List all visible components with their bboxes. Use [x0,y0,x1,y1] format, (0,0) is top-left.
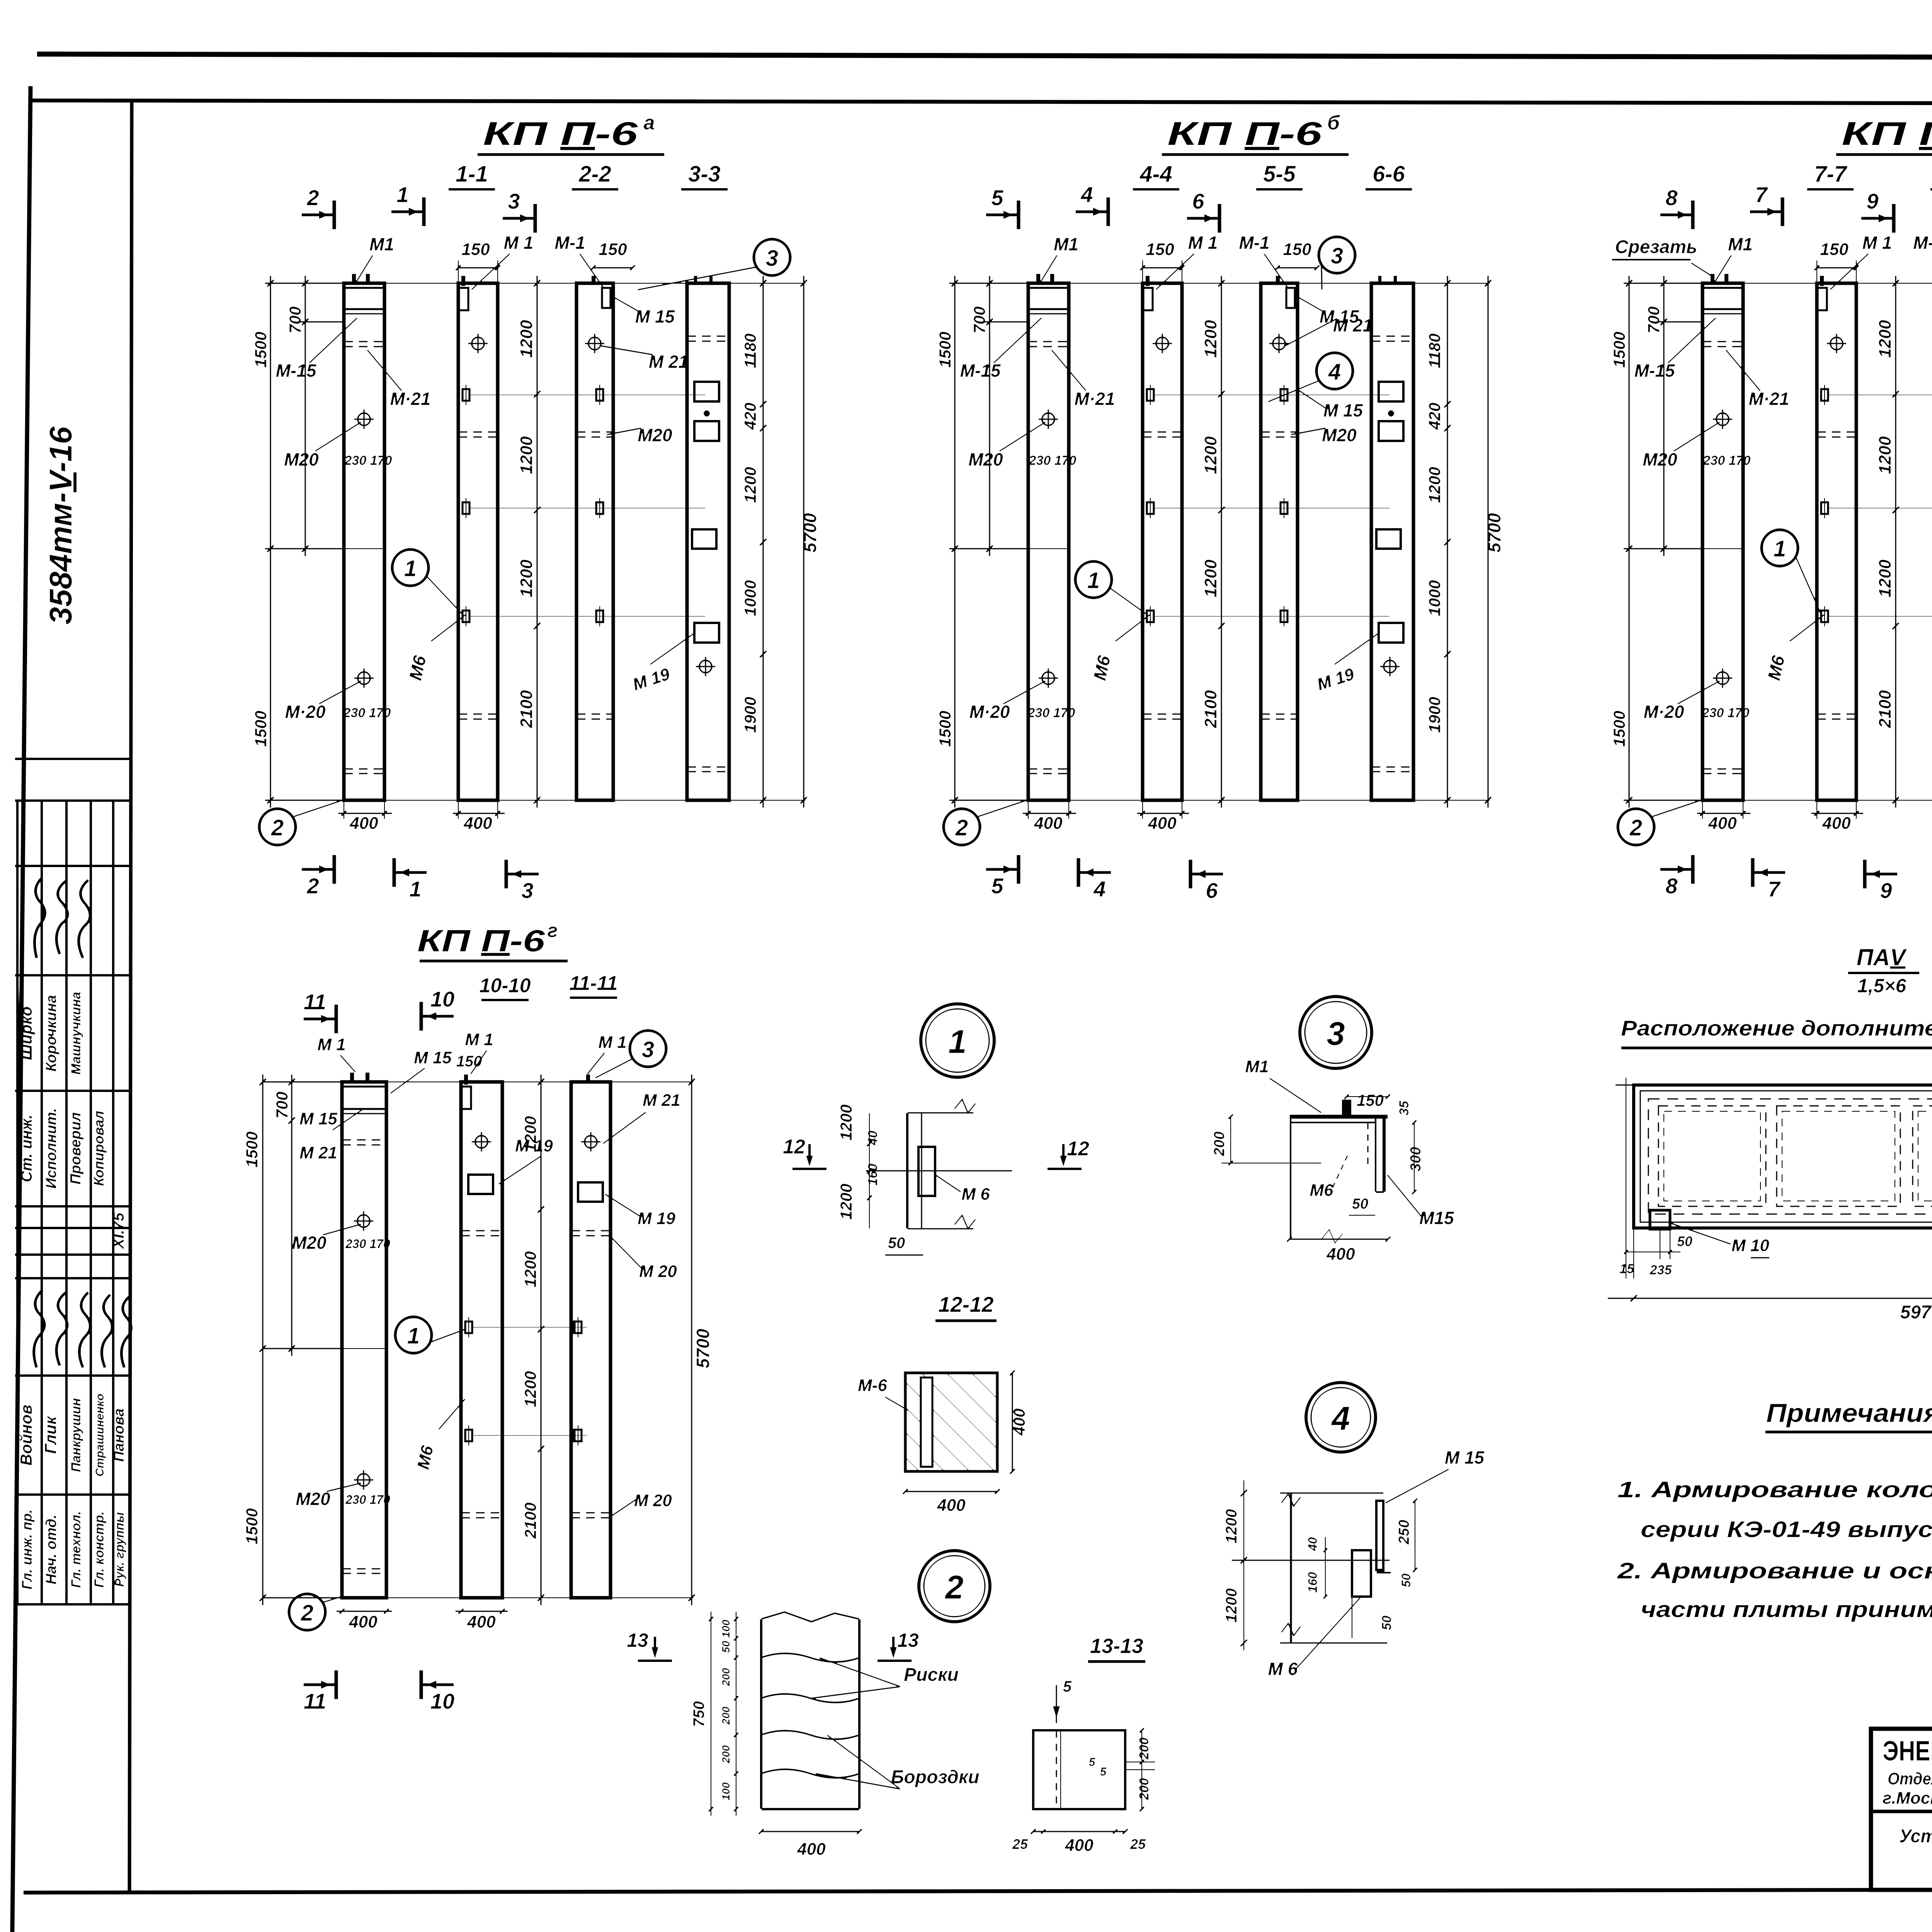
svg-text:1180: 1180 [1425,333,1444,368]
svg-text:1200: 1200 [517,320,536,358]
svg-text:50: 50 [1677,1233,1692,1249]
svg-text:М20: М20 [638,425,672,445]
section cut marks top КП <tspan text-decoration="underline">П</tspan>-6 [986,213,1019,217]
column КП <tspan text-decoration="underline">П</tspan>-6 view 3 [577,283,613,800]
column КП <tspan text-decoration="underline">П</tspan>-6 view 4 [687,283,729,800]
svg-text:1: 1 [1087,568,1100,593]
svg-text:М1: М1 [1728,234,1753,254]
svg-text:200: 200 [1137,1738,1151,1760]
svg-text:7: 7 [1755,182,1768,207]
detail 4 circle [1306,1383,1376,1452]
svg-text:2: 2 [944,1569,963,1606]
column КП <tspan text-decoration="underline">П</tspan>-6 view 2 [458,283,498,800]
plate plan outer [1634,1085,1932,1228]
svg-text:1500: 1500 [243,1131,261,1167]
svg-text:1: 1 [948,1024,966,1060]
section 13-13 drawing [1033,1730,1125,1809]
dimension chain middle КП <tspan text-decoration="underline">П</tspan>-6 [1221,276,1223,808]
svg-text:1200: 1200 [1876,560,1895,597]
detail circle 1 ref КП <tspan text-decoration="underline">П</tspan>-6 [1762,530,1798,566]
svg-text:7: 7 [1768,877,1781,901]
svg-text:М20: М20 [296,1489,330,1509]
svg-text:235: 235 [1650,1263,1672,1277]
detail 2 circle [919,1551,990,1622]
svg-text:35: 35 [1397,1100,1412,1116]
dimension chain middle КП <tspan text-decoration="underline">П</tspan>-6 [1895,276,1897,808]
svg-text:М·21: М·21 [390,389,431,409]
svg-text:Отделение. Дальних Передач: Отделение. Дальних Передач [1888,1769,1932,1788]
svg-text:КП П-6: КП П-6 [417,923,545,958]
svg-text:Исполнит.: Исполнит. [43,1108,60,1189]
detail circle 2 ref КП <tspan text-decoration="underline">П</tspan>-6 [944,809,980,845]
svg-text:160: 160 [1306,1572,1320,1593]
svg-text:М20: М20 [968,449,1003,469]
outer border left line [12,86,31,1932]
svg-text:М20: М20 [292,1233,327,1253]
svg-text:2: 2 [301,1600,313,1626]
svg-text:1500: 1500 [1610,711,1628,747]
svg-text:9: 9 [1880,878,1892,903]
svg-text:10: 10 [430,987,454,1011]
svg-text:М 20: М 20 [639,1262,677,1281]
svg-text:1200: 1200 [1223,1509,1240,1544]
svg-text:М 1: М 1 [465,1030,493,1049]
svg-text:400: 400 [797,1840,826,1859]
level extension lines КП <tspan text-decoration="underline">П</tspan>-6 [469,395,706,396]
svg-text:10-10: 10-10 [480,975,531,997]
svg-text:серии КЭ-01-49 выпуск П.: серии КЭ-01-49 выпуск П. [1641,1517,1932,1542]
svg-text:1200: 1200 [837,1104,855,1140]
plate dimensions [1615,1084,1634,1086]
inner frame top line [29,97,1932,104]
svg-text:25: 25 [1012,1836,1028,1852]
svg-text:3-3: 3-3 [688,162,721,187]
svg-text:1200: 1200 [521,1116,539,1152]
bottom dimensions КП <tspan text-decoration="underline">П</tspan>-6 [338,813,392,815]
svg-text:М 19: М 19 [638,1209,675,1228]
svg-text:5: 5 [1089,1756,1096,1769]
svg-text:230 170: 230 170 [345,1493,390,1507]
dimension chain middle КП II-6г [540,1074,542,1605]
svg-text:1: 1 [404,556,417,581]
svg-text:1200: 1200 [1876,436,1895,474]
level extension lines КП <tspan text-decoration="underline">П</tspan>-6 [1828,395,1932,396]
svg-text:М-1: М-1 [1913,233,1932,253]
section cut marks bottom КП <tspan text-decoration="underline">П</tspan>-6 [301,868,334,871]
svg-text:ЭНЕРГОСЕТЬПРОЕКТ: ЭНЕРГОСЕТЬПРОЕКТ [1883,1736,1932,1767]
svg-text:XI.75: XI.75 [110,1213,127,1250]
svg-text:6: 6 [1192,189,1204,213]
svg-text:230 170: 230 170 [345,1237,390,1251]
detail 1 circle [921,1004,994,1077]
svg-text:1900: 1900 [1425,697,1444,733]
svg-text:400: 400 [463,814,492,833]
plate corner embed left М10 [1650,1210,1670,1229]
svg-text:2: 2 [1629,815,1642,840]
section cut marks top КП II-6г [303,1017,336,1021]
svg-text:Гл. технол.: Гл. технол. [69,1511,83,1588]
svg-text:4-4: 4-4 [1139,162,1172,187]
svg-text:М20: М20 [1643,449,1677,469]
bottom dimensions КП <tspan text-decoration="underline">П</tspan>-6 [1697,813,1751,815]
svg-text:М20: М20 [1322,425,1357,445]
detail circle 3 ref КП II-6г [630,1031,666,1067]
svg-text:50: 50 [888,1235,905,1252]
dimension chain right КП <tspan text-decoration="underline">П</tspan>-6 [1447,276,1449,808]
svg-text:1200: 1200 [517,436,536,474]
svg-text:1200: 1200 [517,560,536,597]
svg-text:М·20: М·20 [285,702,326,722]
stamp block A signatures [34,877,45,958]
svg-text:1200: 1200 [1201,560,1220,597]
svg-text:1900: 1900 [741,697,759,733]
svg-text:400: 400 [349,814,378,833]
svg-text:1200: 1200 [1201,320,1220,358]
svg-text:7-7: 7-7 [1814,162,1848,187]
svg-text:400: 400 [1822,814,1851,833]
detail 4 drawing [1290,1493,1293,1643]
svg-text:2: 2 [271,815,284,840]
detail circle 2 ref КП <tspan text-decoration="underline">П</tspan>-6 [259,809,296,845]
detail circle 2 ref КП II-6г [289,1594,325,1630]
svg-text:400: 400 [349,1612,378,1631]
svg-text:М20: М20 [284,449,319,469]
bottom dimensions КП <tspan text-decoration="underline">П</tspan>-6 [1022,813,1077,815]
svg-text:2: 2 [955,815,968,840]
svg-text:700: 700 [273,1092,291,1119]
svg-text:М 1: М 1 [504,233,534,253]
detail circle 4 ref КП <tspan text-decoration="underline">П</tspan>-6 [1316,353,1353,389]
svg-text:150: 150 [1820,240,1849,259]
section cut marks top КП <tspan text-decoration="underline">П</tspan>-6 [301,213,334,217]
svg-text:б: б [1327,112,1340,134]
svg-text:50: 50 [1399,1573,1413,1587]
stamp column right line [129,101,132,1892]
svg-text:М1: М1 [1054,234,1078,254]
svg-text:1500: 1500 [252,332,270,367]
svg-text:5970: 5970 [1900,1302,1932,1323]
svg-text:200: 200 [720,1745,732,1764]
svg-text:Корочкина: Корочкина [43,995,60,1071]
svg-text:12: 12 [1067,1138,1089,1160]
section cut marks top КП <tspan text-decoration="underline">П</tspan>-6 [1660,213,1693,217]
detail circle 1 ref КП II-6г [395,1317,432,1353]
svg-text:М·21: М·21 [1075,389,1115,409]
column КП <tspan text-decoration="underline">П</tspan>-6 view 1 [1028,283,1069,800]
detail 3 circle [1300,997,1372,1068]
svg-text:3: 3 [642,1037,654,1062]
detail circle 2 ref КП <tspan text-decoration="underline">П</tspan>-6 [1618,809,1654,845]
svg-text:1: 1 [407,1323,420,1349]
svg-text:200: 200 [1137,1778,1151,1801]
svg-text:3: 3 [766,246,778,271]
svg-text:5700: 5700 [800,513,820,553]
svg-text:1: 1 [409,877,421,901]
svg-text:230 170: 230 170 [344,453,392,468]
svg-text:150: 150 [599,240,627,259]
svg-text:КП П-6: КП П-6 [1842,116,1932,152]
svg-text:2100: 2100 [521,1502,539,1539]
dimension lines left КП <tspan text-decoration="underline">П</tspan>-6 [1623,282,1704,284]
svg-text:8: 8 [1665,185,1678,210]
svg-text:г: г [548,920,558,941]
inner frame bottom line [23,1889,1932,1893]
svg-text:2100: 2100 [1876,690,1895,728]
svg-text:1500: 1500 [936,711,954,747]
svg-text:1200: 1200 [1201,436,1220,474]
svg-text:3: 3 [1331,243,1343,269]
column КП <tspan text-decoration="underline">П</tspan>-6 view 2 [1817,283,1856,800]
svg-text:13: 13 [897,1629,919,1651]
svg-text:Копировал: Копировал [91,1111,107,1186]
svg-text:КП П-6: КП П-6 [483,116,638,152]
svg-text:3: 3 [521,878,533,903]
svg-text:1200: 1200 [1876,320,1895,358]
svg-text:1200: 1200 [1223,1588,1240,1623]
svg-text:2100: 2100 [517,690,536,728]
svg-text:420: 420 [1425,403,1444,430]
svg-text:6-6: 6-6 [1372,162,1405,187]
svg-text:1500: 1500 [1610,332,1628,367]
svg-text:250: 250 [1396,1520,1412,1544]
dimension 5700 КП <tspan text-decoration="underline">П</tspan>-6 [803,276,805,808]
svg-text:М 1: М 1 [1188,233,1218,253]
svg-text:Глик: Глик [41,1416,60,1454]
svg-text:1500: 1500 [252,711,270,747]
svg-text:М 1: М 1 [317,1035,345,1054]
svg-text:г.Москва: г.Москва [1883,1789,1932,1808]
svg-text:25: 25 [1130,1836,1146,1852]
svg-text:1: 1 [396,182,408,207]
svg-text:М1: М1 [1245,1057,1269,1076]
svg-text:1200: 1200 [837,1184,855,1219]
svg-text:а: а [644,112,655,134]
svg-text:части плиты принимать по с: части плиты принимать по серии 1.465-7. [1641,1597,1932,1622]
plate plan dashed contours [1648,1099,1932,1214]
title block left cell [1871,1810,1932,1814]
stamp block B signatures [34,1290,44,1368]
dimension lines left КП <tspan text-decoration="underline">П</tspan>-6 [265,282,346,284]
svg-text:1200: 1200 [1425,467,1444,503]
svg-text:5700: 5700 [693,1328,713,1368]
svg-text:Панкрушин: Панкрушин [69,1398,83,1472]
svg-text:1,5×6: 1,5×6 [1857,975,1907,997]
svg-text:5: 5 [1100,1765,1107,1778]
svg-text:100: 100 [720,1619,732,1638]
svg-text:Установка синхронных: Установка синхронных [1899,1826,1932,1847]
dimension lines left КП <tspan text-decoration="underline">П</tspan>-6 [949,282,1030,284]
svg-text:М 15: М 15 [1445,1447,1485,1468]
detail circle 1 ref КП <tspan text-decoration="underline">П</tspan>-6 [392,549,429,586]
svg-text:50: 50 [1379,1616,1394,1630]
dimension chain middle КП <tspan text-decoration="underline">П</tspan>-6 [536,276,538,808]
column КП <tspan text-decoration="underline">П</tspan>-6 view 2 [1143,283,1182,800]
svg-text:200: 200 [720,1706,732,1725]
svg-text:1200: 1200 [521,1371,539,1407]
svg-text:М 15: М 15 [414,1048,452,1067]
svg-text:Ст. инж.: Ст. инж. [18,1114,35,1182]
section cut marks bottom КП II-6г [303,1683,336,1687]
dimension 5700 КП <tspan text-decoration="underline">П</tspan>-6 [1487,276,1489,808]
svg-text:Панова: Панова [111,1408,127,1462]
svg-text:М 15: М 15 [1323,400,1364,420]
svg-text:Проверил: Проверил [68,1112,84,1185]
svg-text:Нач. отд.: Нач. отд. [43,1515,60,1585]
svg-text:М·21: М·21 [1749,389,1789,409]
svg-text:12: 12 [783,1136,805,1158]
svg-text:400: 400 [937,1496,966,1515]
svg-text:12-12: 12-12 [938,1292,993,1316]
svg-text:М15: М15 [1419,1208,1454,1228]
svg-text:М 21: М 21 [649,352,688,372]
dimension chain right КП <tspan text-decoration="underline">П</tspan>-6 [762,276,764,808]
svg-text:400: 400 [1326,1245,1355,1264]
svg-text:М 6: М 6 [1268,1659,1298,1679]
column КП <tspan text-decoration="underline">П</tspan>-6 view 1 [344,283,384,800]
signature stamp strip grid [15,757,132,760]
svg-text:230 170: 230 170 [1703,453,1751,468]
svg-text:М 1: М 1 [1862,233,1892,253]
svg-text:2: 2 [306,185,319,210]
dimension 5700 КП II-6г [691,1074,693,1605]
svg-text:М 21: М 21 [643,1091,680,1110]
svg-text:Рук. группы: Рук. группы [112,1512,126,1587]
svg-text:4: 4 [1080,182,1093,207]
svg-text:400: 400 [1065,1836,1094,1855]
dimensions left КП II-6г [263,1081,344,1083]
svg-text:15: 15 [1619,1262,1634,1276]
column КП <tspan text-decoration="underline">П</tspan>-6 view 1 [1702,283,1743,800]
svg-text:1. Армирование колонн приним: 1. Армирование колонн принимать по [1617,1477,1932,1502]
svg-text:Войнов: Войнов [17,1405,35,1466]
column КП II-6г view 3 (11-11) [571,1082,611,1598]
svg-text:3: 3 [508,189,520,213]
svg-text:400: 400 [1010,1408,1028,1436]
svg-text:1000: 1000 [741,580,759,616]
svg-text:400: 400 [467,1612,496,1631]
svg-text:4: 4 [1093,877,1105,901]
svg-text:400: 400 [1708,814,1737,833]
svg-text:10: 10 [430,1689,454,1713]
svg-text:8: 8 [1665,874,1678,898]
svg-text:2-2: 2-2 [578,162,611,187]
section cut marks bottom КП <tspan text-decoration="underline">П</tspan>-6 [1660,868,1693,871]
svg-text:М 20: М 20 [634,1491,672,1510]
svg-text:Срезать: Срезать [1615,237,1697,257]
svg-text:М-1: М-1 [1239,233,1269,253]
svg-text:4: 4 [1328,359,1341,384]
svg-text:11-11: 11-11 [569,972,617,995]
svg-text:1-1: 1-1 [456,162,488,187]
svg-text:5: 5 [991,185,1003,210]
svg-text:Примечания: Примечания [1766,1398,1932,1428]
svg-text:Страшиненко: Страшиненко [94,1394,106,1477]
svg-text:Машнучкина: Машнучкина [69,992,83,1075]
svg-text:700: 700 [1645,306,1663,333]
svg-text:150: 150 [1357,1091,1384,1109]
svg-text:М1: М1 [369,234,394,254]
svg-text:160: 160 [866,1164,880,1186]
svg-text:150: 150 [1146,240,1174,259]
svg-text:150: 150 [456,1053,482,1070]
svg-text:М-15: М-15 [1634,361,1675,381]
svg-text:400: 400 [1148,814,1177,833]
svg-text:200: 200 [720,1668,732,1686]
column КП <tspan text-decoration="underline">П</tspan>-6 view 4 [1371,283,1413,800]
svg-text:11: 11 [304,1689,326,1713]
detail 3 drawing (top bracket) [1289,1114,1388,1119]
level extension lines КП II-6г [471,1327,587,1328]
svg-text:1200: 1200 [741,467,759,503]
svg-text:420: 420 [741,403,759,430]
svg-text:150: 150 [1283,240,1311,259]
svg-text:2100: 2100 [1201,690,1220,728]
svg-text:6: 6 [1206,878,1218,903]
svg-text:5: 5 [1063,1678,1072,1695]
svg-text:1180: 1180 [741,333,759,368]
detail 1 drawing [906,1113,909,1229]
svg-text:40: 40 [866,1131,880,1146]
svg-text:5-5: 5-5 [1263,162,1296,187]
svg-text:М 21: М 21 [1333,315,1372,335]
svg-text:2. Армирование и основные з: 2. Армирование и основные закладные [1617,1558,1932,1583]
svg-text:230 170: 230 170 [1702,706,1750,720]
svg-text:11: 11 [304,990,326,1014]
svg-text:Гл. инж. пр.: Гл. инж. пр. [19,1509,35,1589]
svg-text:2: 2 [306,874,319,898]
section cut marks bottom КП <tspan text-decoration="underline">П</tspan>-6 [986,868,1019,871]
detail circle 3 ref КП <tspan text-decoration="underline">П</tspan>-6 [754,239,790,276]
svg-text:100: 100 [720,1782,732,1800]
svg-text:50: 50 [1352,1196,1368,1212]
detail circle 1 ref КП <tspan text-decoration="underline">П</tspan>-6 [1075,561,1112,598]
svg-text:13: 13 [627,1629,648,1651]
svg-text:5700: 5700 [1484,513,1504,553]
bottom dimensions КП II-6г [336,1611,392,1612]
svg-text:Бороздки: Бороздки [891,1767,979,1787]
svg-text:М·20: М·20 [1644,702,1684,722]
svg-text:1200: 1200 [521,1251,539,1287]
svg-text:750: 750 [690,1701,707,1727]
svg-text:Гл. констр.: Гл. констр. [92,1511,107,1588]
detail 2 drawing (column end with riski) [760,1619,763,1809]
svg-text:5: 5 [991,874,1003,898]
svg-text:1000: 1000 [1425,580,1444,616]
svg-text:1500: 1500 [936,332,954,367]
svg-text:150: 150 [461,240,490,259]
svg-text:400: 400 [1034,814,1063,833]
svg-text:М 15: М 15 [635,306,675,327]
column КП II-6г view 1 [342,1082,386,1598]
svg-text:КП П-6: КП П-6 [1167,116,1322,152]
dims detail 2 [735,1611,737,1816]
svg-text:13-13: 13-13 [1090,1634,1143,1658]
column КП <tspan text-decoration="underline">П</tspan>-6 view 3 [1261,283,1298,800]
svg-text:М 21: М 21 [299,1143,337,1162]
svg-text:230 170: 230 170 [1027,706,1075,720]
svg-text:40: 40 [1306,1537,1320,1551]
svg-text:1500: 1500 [243,1508,261,1544]
svg-text:М 6: М 6 [961,1185,990,1204]
svg-text:М 15: М 15 [299,1109,337,1128]
svg-text:3: 3 [1327,1015,1345,1052]
detail circle 3 ref КП <tspan text-decoration="underline">П</tspan>-6 [1319,237,1355,273]
svg-text:М 1: М 1 [598,1033,626,1052]
svg-text:Ширко: Ширко [17,1006,35,1060]
svg-text:50: 50 [720,1641,732,1653]
svg-text:3584тм-V-16: 3584тм-V-16 [43,426,78,624]
svg-text:700: 700 [286,306,304,333]
